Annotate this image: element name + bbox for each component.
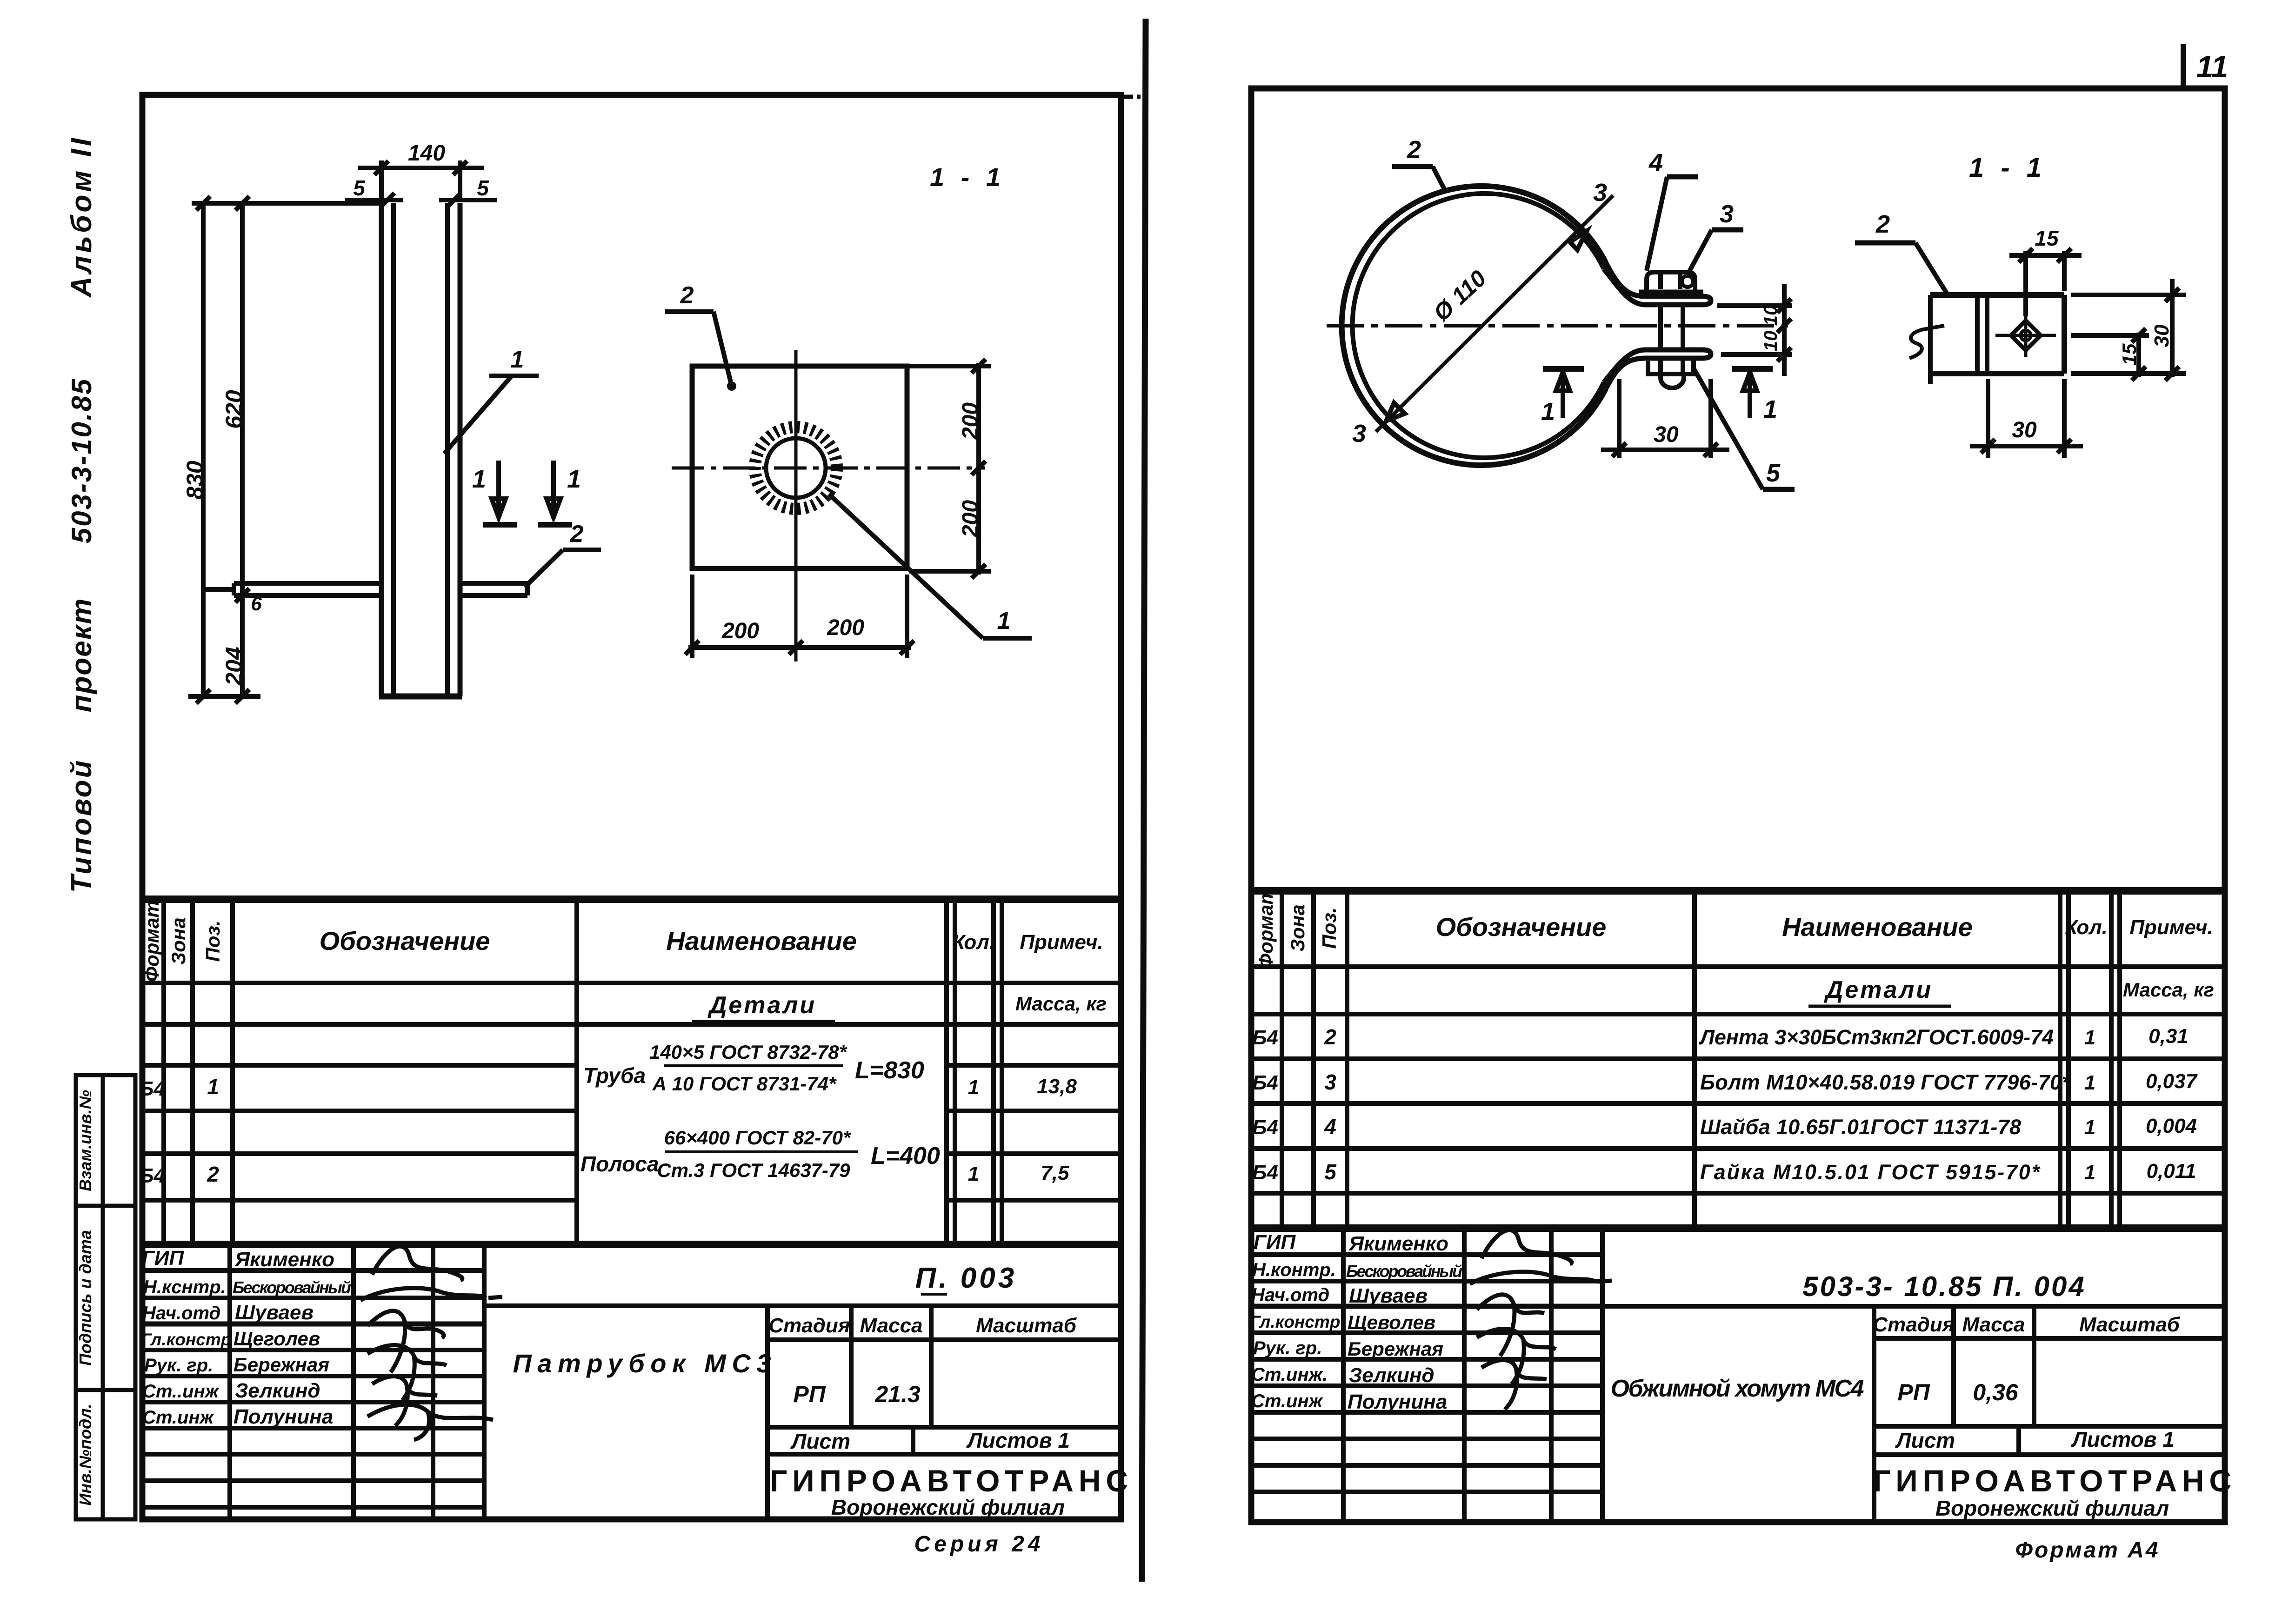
svg-text:15: 15 [2118, 343, 2140, 365]
svg-text:Бережная: Бережная [234, 1354, 329, 1376]
dim 5 wall thickness right [439, 198, 497, 202]
svg-text:2: 2 [207, 1162, 219, 1186]
svg-text:проект: проект [66, 598, 98, 713]
svg-text:2: 2 [1875, 210, 1890, 238]
svg-text:830: 830 [182, 461, 208, 500]
svg-text:Б4: Б4 [1252, 1071, 1278, 1094]
svg-text:15: 15 [2035, 226, 2059, 250]
band inner arc [1353, 194, 1604, 458]
section mark 1 left [472, 461, 517, 525]
svg-text:Зелкинд: Зелкинд [235, 1379, 320, 1402]
svg-text:Н.контр.: Н.контр. [1252, 1260, 1336, 1280]
svg-text:Лист: Лист [1895, 1428, 1955, 1452]
svg-text:L=400: L=400 [871, 1143, 940, 1170]
svg-text:13,8: 13,8 [1037, 1075, 1077, 1098]
svg-text:1: 1 [2084, 1071, 2095, 1094]
leader 2 to flange [525, 550, 563, 587]
svg-text:3: 3 [1352, 420, 1366, 448]
horizontals: staff rows [140, 1268, 484, 1273]
svg-text:Н.кснтр.: Н.кснтр. [143, 1277, 226, 1297]
svg-text:1: 1 [968, 1076, 979, 1099]
svg-text:ГИП: ГИП [1254, 1231, 1296, 1254]
svg-text:11: 11 [2196, 49, 2229, 84]
dims 10/10 right [1717, 303, 1792, 308]
svg-text:200: 200 [958, 402, 983, 440]
svg-text:Формат: Формат [141, 900, 163, 982]
svg-text:Подпись и дата: Подпись и дата [76, 1230, 95, 1366]
svg-text:Болт М10×40.58.019 ГОСТ 7796-7: Болт М10×40.58.019 ГОСТ 7796-70* [1700, 1070, 2071, 1094]
svg-text:Кол.: Кол. [2065, 916, 2108, 939]
dim 140 [379, 160, 384, 200]
svg-text:Масштаб: Масштаб [2079, 1313, 2181, 1336]
svg-text:5: 5 [477, 176, 489, 200]
svg-text:503-3- 10.85 П. 004: 503-3- 10.85 П. 004 [1802, 1271, 2086, 1302]
pipe bottom edge [379, 694, 462, 700]
svg-text:Шайба 10.65Г.01ГОСТ 11371-78: Шайба 10.65Г.01ГОСТ 11371-78 [1700, 1115, 2021, 1139]
svg-text:Полунина: Полунина [1348, 1390, 1447, 1413]
svg-text:Зона: Зона [167, 917, 189, 964]
svg-text:2: 2 [1407, 136, 1421, 164]
center fold divider line [1124, 19, 1146, 1582]
svg-text:Поз.: Поз. [202, 921, 224, 962]
svg-text:Масса, кг: Масса, кг [2123, 979, 2214, 1001]
svg-text:1: 1 [207, 1075, 219, 1099]
svg-text:66×400 ГОСТ 82-70*: 66×400 ГОСТ 82-70* [664, 1127, 851, 1149]
table top thick line [140, 896, 1121, 903]
svg-text:Листов 1: Листов 1 [2071, 1427, 2175, 1451]
svg-text:1: 1 [1541, 398, 1555, 426]
svg-text:Б4: Б4 [1252, 1161, 1278, 1184]
svg-text:Нач.отд: Нач.отд [142, 1303, 220, 1323]
svg-text:0,037: 0,037 [2146, 1070, 2198, 1093]
svg-text:3: 3 [1324, 1070, 1336, 1094]
svg-text:Рук. гр.: Рук. гр. [1253, 1338, 1322, 1358]
svg-text:Масса: Масса [860, 1314, 922, 1337]
svg-text:Б4: Б4 [139, 1077, 165, 1100]
svg-text:204: 204 [221, 647, 247, 686]
bolt shaft [1658, 305, 1663, 350]
svg-text:2: 2 [680, 282, 694, 309]
svg-text:Б4: Б4 [139, 1164, 165, 1187]
svg-text:Масса, кг: Масса, кг [1015, 993, 1107, 1015]
svg-text:Стадия: Стадия [768, 1314, 850, 1337]
svg-text:Формат А4: Формат А4 [2015, 1538, 2160, 1563]
dim 30 bottom of flange [1617, 379, 1621, 458]
svg-text:Гл.констр: Гл.констр [141, 1330, 231, 1349]
upper flange band [1604, 262, 1711, 305]
right part [1602, 1304, 2225, 1309]
svg-text:Полунина: Полунина [234, 1405, 333, 1428]
bottom extension line [188, 694, 260, 699]
svg-text:Бескоровайный: Бескоровайный [233, 1278, 351, 1297]
svg-text:0,31: 0,31 [2149, 1025, 2189, 1048]
margin boxes [76, 1075, 135, 1519]
leader 1 to pipe [444, 376, 512, 454]
svg-text:1: 1 [567, 465, 581, 493]
horizontals: right part [484, 1303, 1121, 1308]
svg-text:Взам.инв.№: Взам.инв.№ [76, 1090, 95, 1191]
lower flange band [1604, 350, 1711, 389]
svg-text:5: 5 [1324, 1160, 1337, 1184]
top extension line to left dims [192, 201, 383, 206]
svg-text:Ст..инж: Ст..инж [142, 1381, 220, 1402]
svg-text:4: 4 [1324, 1115, 1336, 1139]
svg-text:Нач.отд: Нач.отд [1251, 1285, 1329, 1305]
svg-text:Б4: Б4 [1252, 1116, 1278, 1139]
band outer arc [1342, 186, 1606, 465]
svg-text:Б4: Б4 [1252, 1026, 1278, 1049]
bend double line [1975, 295, 1980, 374]
svg-text:Обжимной хомут МС4: Обжимной хомут МС4 [1611, 1375, 1864, 1402]
svg-text:Бескоровайный: Бескоровайный [1346, 1262, 1462, 1281]
svg-text:Лист: Лист [790, 1429, 850, 1453]
extension from flange to dim [205, 587, 234, 592]
svg-text:200: 200 [958, 500, 983, 538]
svg-text:Масса: Масса [1962, 1313, 2025, 1336]
svg-text:Стадия: Стадия [1873, 1313, 1954, 1336]
svg-text:3: 3 [1593, 179, 1607, 207]
svg-text:Шуваев: Шуваев [1349, 1284, 1428, 1307]
bolt head [1647, 272, 1695, 290]
svg-text:Ст.инж: Ст.инж [142, 1407, 215, 1428]
svg-text:Кол.: Кол. [952, 931, 995, 954]
svg-text:Поз.: Поз. [1318, 908, 1340, 949]
svg-text:Инв.№подл.: Инв.№подл. [76, 1403, 95, 1505]
svg-text:Обозначение: Обозначение [320, 926, 490, 956]
svg-text:Труба: Труба [583, 1063, 646, 1088]
svg-text:Обозначение: Обозначение [1436, 912, 1607, 942]
svg-text:21.3: 21.3 [874, 1381, 921, 1407]
break squiggle [1909, 326, 1944, 358]
right dims 15 / 30 [2071, 293, 2186, 297]
svg-text:Масштаб: Масштаб [976, 1314, 1077, 1337]
verticals [227, 1244, 232, 1519]
page frame [142, 95, 1121, 1519]
svg-text:П. 003: П. 003 [915, 1262, 1017, 1294]
svg-text:5: 5 [1766, 459, 1781, 487]
horizontal centerline [1327, 324, 1788, 327]
verticals [161, 899, 166, 1244]
svg-text:1: 1 [997, 608, 1011, 635]
dim 620/204 line [240, 203, 245, 696]
svg-text:1: 1 [511, 346, 524, 373]
svg-text:ГИПРОАВТОТРАНС: ГИПРОАВТОТРАНС [1873, 1464, 2231, 1498]
leader 1 [829, 494, 983, 638]
svg-text:Щеволев: Щеволев [1348, 1311, 1435, 1333]
svg-text:200: 200 [721, 619, 759, 643]
section mark 1 right [538, 461, 581, 525]
svg-text:0,011: 0,011 [2147, 1160, 2196, 1183]
staff rows [1249, 1252, 1602, 1257]
washer under head [1639, 290, 1703, 295]
svg-text:Альбом II: Альбом II [66, 135, 98, 298]
flange plate side view [234, 581, 380, 586]
svg-text:Детали: Детали [1824, 976, 1933, 1003]
svg-text:РП: РП [1897, 1379, 1930, 1405]
plate square [692, 366, 907, 568]
svg-text:2: 2 [1324, 1025, 1336, 1049]
hole circle with weld teeth [766, 438, 826, 498]
svg-text:30: 30 [2150, 324, 2173, 347]
svg-text:503-3-10.85: 503-3-10.85 [66, 378, 97, 544]
centerlines [794, 350, 798, 662]
svg-text:30: 30 [1654, 422, 1679, 447]
dim 5 wall thickness left [345, 198, 403, 202]
svg-text:1: 1 [472, 465, 486, 493]
svg-text:1: 1 [2084, 1116, 2095, 1139]
svg-text:200: 200 [827, 615, 864, 640]
svg-text:Зона: Зона [1287, 904, 1308, 951]
svg-text:620: 620 [221, 390, 247, 429]
svg-text:Зелкинд: Зелкинд [1349, 1364, 1435, 1387]
svg-text:4: 4 [1648, 149, 1663, 177]
svg-text:Гл.констр: Гл.констр [1250, 1312, 1340, 1331]
svg-text:10: 10 [1761, 305, 1781, 326]
svg-text:Гайка М10.5.01 ГОСТ 5915-70*: Гайка М10.5.01 ГОСТ 5915-70* [1700, 1160, 2041, 1184]
svg-text:Рук. гр.: Рук. гр. [144, 1355, 213, 1376]
svg-text:1 - 1: 1 - 1 [1969, 153, 2046, 183]
dim 830 line [201, 203, 206, 696]
svg-text:3: 3 [1720, 200, 1734, 228]
svg-text:0,36: 0,36 [1973, 1379, 2019, 1405]
svg-text:Ст.инж.: Ст.инж. [1251, 1364, 1328, 1385]
svg-text:А 10 ГОСТ 8731-74*: А 10 ГОСТ 8731-74* [652, 1073, 837, 1095]
svg-text:140: 140 [408, 141, 445, 166]
nut [1648, 358, 1694, 374]
diameter line [1376, 195, 1613, 432]
svg-text:Воронежский филиал: Воронежский филиал [1935, 1496, 2169, 1520]
signature squiggles [1470, 1230, 1612, 1410]
svg-text:30: 30 [2012, 418, 2037, 442]
svg-text:ГИП: ГИП [142, 1247, 185, 1270]
svg-text:Листов 1: Листов 1 [966, 1428, 1070, 1452]
bolt end [1661, 374, 1684, 388]
horizontals [140, 981, 1121, 985]
svg-text:Формат: Формат [1255, 887, 1277, 969]
svg-text:ГИПРОАВТОТРАНС: ГИПРОАВТОТРАНС [770, 1464, 1128, 1498]
svg-text:Якименко: Якименко [1348, 1232, 1448, 1255]
page number tick [2183, 44, 2228, 89]
svg-text:Полоса: Полоса [581, 1152, 659, 1176]
band strip [1930, 292, 2064, 298]
svg-text:Наименование: Наименование [666, 926, 857, 956]
svg-text:Детали: Детали [707, 992, 816, 1019]
svg-text:Серия 24: Серия 24 [914, 1532, 1044, 1557]
svg-text:Ø 110: Ø 110 [1428, 265, 1491, 326]
section mark 1 right [1732, 369, 1777, 423]
dim 15 top [2023, 251, 2028, 316]
dim 30 bottom [1986, 379, 1990, 458]
section mark 1 left [1541, 369, 1584, 426]
bottom dim 200/200 [690, 575, 694, 658]
svg-text:Примеч.: Примеч. [2129, 916, 2213, 939]
svg-text:Примеч.: Примеч. [1020, 931, 1103, 954]
svg-text:РП: РП [793, 1381, 826, 1407]
svg-text:5: 5 [353, 176, 366, 200]
svg-text:1: 1 [2084, 1026, 2095, 1049]
svg-text:140×5 ГОСТ 8732-78*: 140×5 ГОСТ 8732-78* [649, 1041, 847, 1063]
svg-text:Типовой: Типовой [66, 759, 98, 893]
svg-text:1: 1 [1763, 395, 1777, 423]
svg-text:Шуваев: Шуваев [235, 1301, 314, 1324]
signatures squiggles [360, 1246, 502, 1440]
right dim 200/200 [909, 364, 991, 368]
leader 2 [714, 312, 732, 386]
svg-text:0,004: 0,004 [2146, 1115, 2197, 1137]
svg-text:Лента 3×30БСт3кп2ГОСТ.6009-74: Лента 3×30БСт3кп2ГОСТ.6009-74 [1699, 1025, 2054, 1049]
svg-text:Ст.инж: Ст.инж [1251, 1391, 1324, 1411]
svg-text:1: 1 [2084, 1161, 2095, 1184]
page frame [1251, 88, 2225, 1522]
svg-text:10: 10 [1761, 331, 1781, 352]
svg-text:L=830: L=830 [855, 1057, 924, 1084]
svg-text:Щеголев: Щеголев [234, 1328, 320, 1350]
diamond hole [2011, 321, 2041, 350]
svg-text:1: 1 [968, 1163, 979, 1185]
svg-text:Наименование: Наименование [1782, 912, 1973, 942]
svg-text:Бережная: Бережная [1348, 1338, 1443, 1360]
svg-text:Якименко: Якименко [234, 1248, 334, 1271]
svg-text:1 - 1: 1 - 1 [930, 162, 1005, 192]
svg-text:7,5: 7,5 [1041, 1162, 1069, 1184]
svg-text:Воронежский филиал: Воронежский филиал [831, 1495, 1065, 1519]
svg-text:Патрубок МС3: Патрубок МС3 [513, 1349, 771, 1378]
table bottom thick line [140, 1241, 1121, 1248]
pipe tube walls [379, 203, 384, 696]
svg-text:Ст.3 ГОСТ 14637-79: Ст.3 ГОСТ 14637-79 [657, 1159, 850, 1181]
